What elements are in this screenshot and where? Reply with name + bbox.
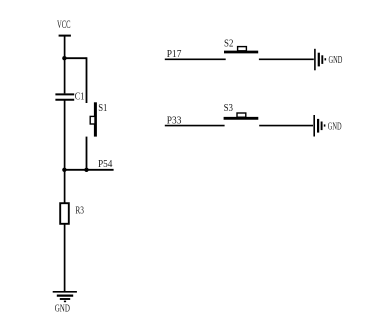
svg-text:S1: S1 [98, 102, 107, 114]
switch S2 bar [224, 51, 258, 54]
ground symbol bottom bar3 [60, 298, 70, 300]
wire VCC node to C1 [64, 58, 66, 93]
capacitor C1 bottom plate [55, 99, 74, 101]
wire branch horizontal to S1 [64, 57, 86, 59]
wire branch vertical down to S1 top contact [86, 57, 88, 103]
wire VCC stem [64, 36, 66, 59]
ground symbol row1 bar3 [321, 55, 323, 64]
ground symbol bottom bar1 [53, 291, 77, 293]
svg-text:P33: P33 [167, 115, 182, 127]
ground symbol row2 bar1 [313, 115, 315, 137]
svg-text:P54: P54 [98, 158, 113, 170]
wire C1 to bottom node [64, 100, 66, 171]
ground symbol row2 bar2 [317, 119, 319, 133]
svg-text:VCC: VCC [57, 17, 71, 31]
svg-text:S2: S2 [224, 37, 233, 49]
wire node to R3 [64, 170, 66, 203]
wire P33 to S3 [165, 125, 225, 127]
svg-text:GND: GND [55, 302, 70, 314]
wire S2 to GND [259, 58, 314, 60]
capacitor C1 top plate [55, 93, 74, 95]
ground symbol row1 bar1 [314, 49, 316, 71]
wire bottom node horizontal P54 [64, 169, 114, 171]
ground symbol row1 bar2 [318, 53, 320, 67]
node junction top [62, 56, 66, 60]
switch S2 actuator tab [238, 47, 247, 51]
power symbol VCC bar [59, 35, 71, 37]
wire S3 to GND [259, 125, 313, 127]
ground symbol bottom bar2 [57, 295, 73, 297]
ground symbol bottom dot [64, 300, 66, 302]
svg-text:R3: R3 [75, 205, 84, 217]
switch S1 actuator tab [90, 116, 95, 124]
resistor R3 [60, 203, 69, 224]
ground symbol row1 dot [324, 58, 326, 60]
wire S1 bottom contact down [86, 137, 88, 171]
wire P17 to S2 [165, 58, 226, 60]
svg-text:S3: S3 [224, 102, 234, 114]
switch S3 actuator tab [237, 113, 246, 117]
switch S1 bar [94, 102, 97, 136]
switch S3 bar [224, 117, 259, 120]
svg-text:C1: C1 [75, 91, 85, 103]
svg-text:GND: GND [329, 55, 343, 66]
wire R3 to ground [64, 224, 66, 291]
ground symbol row2 dot [324, 124, 326, 126]
svg-text:GND: GND [328, 121, 342, 132]
node junction right [84, 168, 88, 172]
svg-text:P17: P17 [167, 48, 182, 60]
node junction left [62, 168, 66, 172]
ground symbol row2 bar3 [321, 122, 323, 131]
